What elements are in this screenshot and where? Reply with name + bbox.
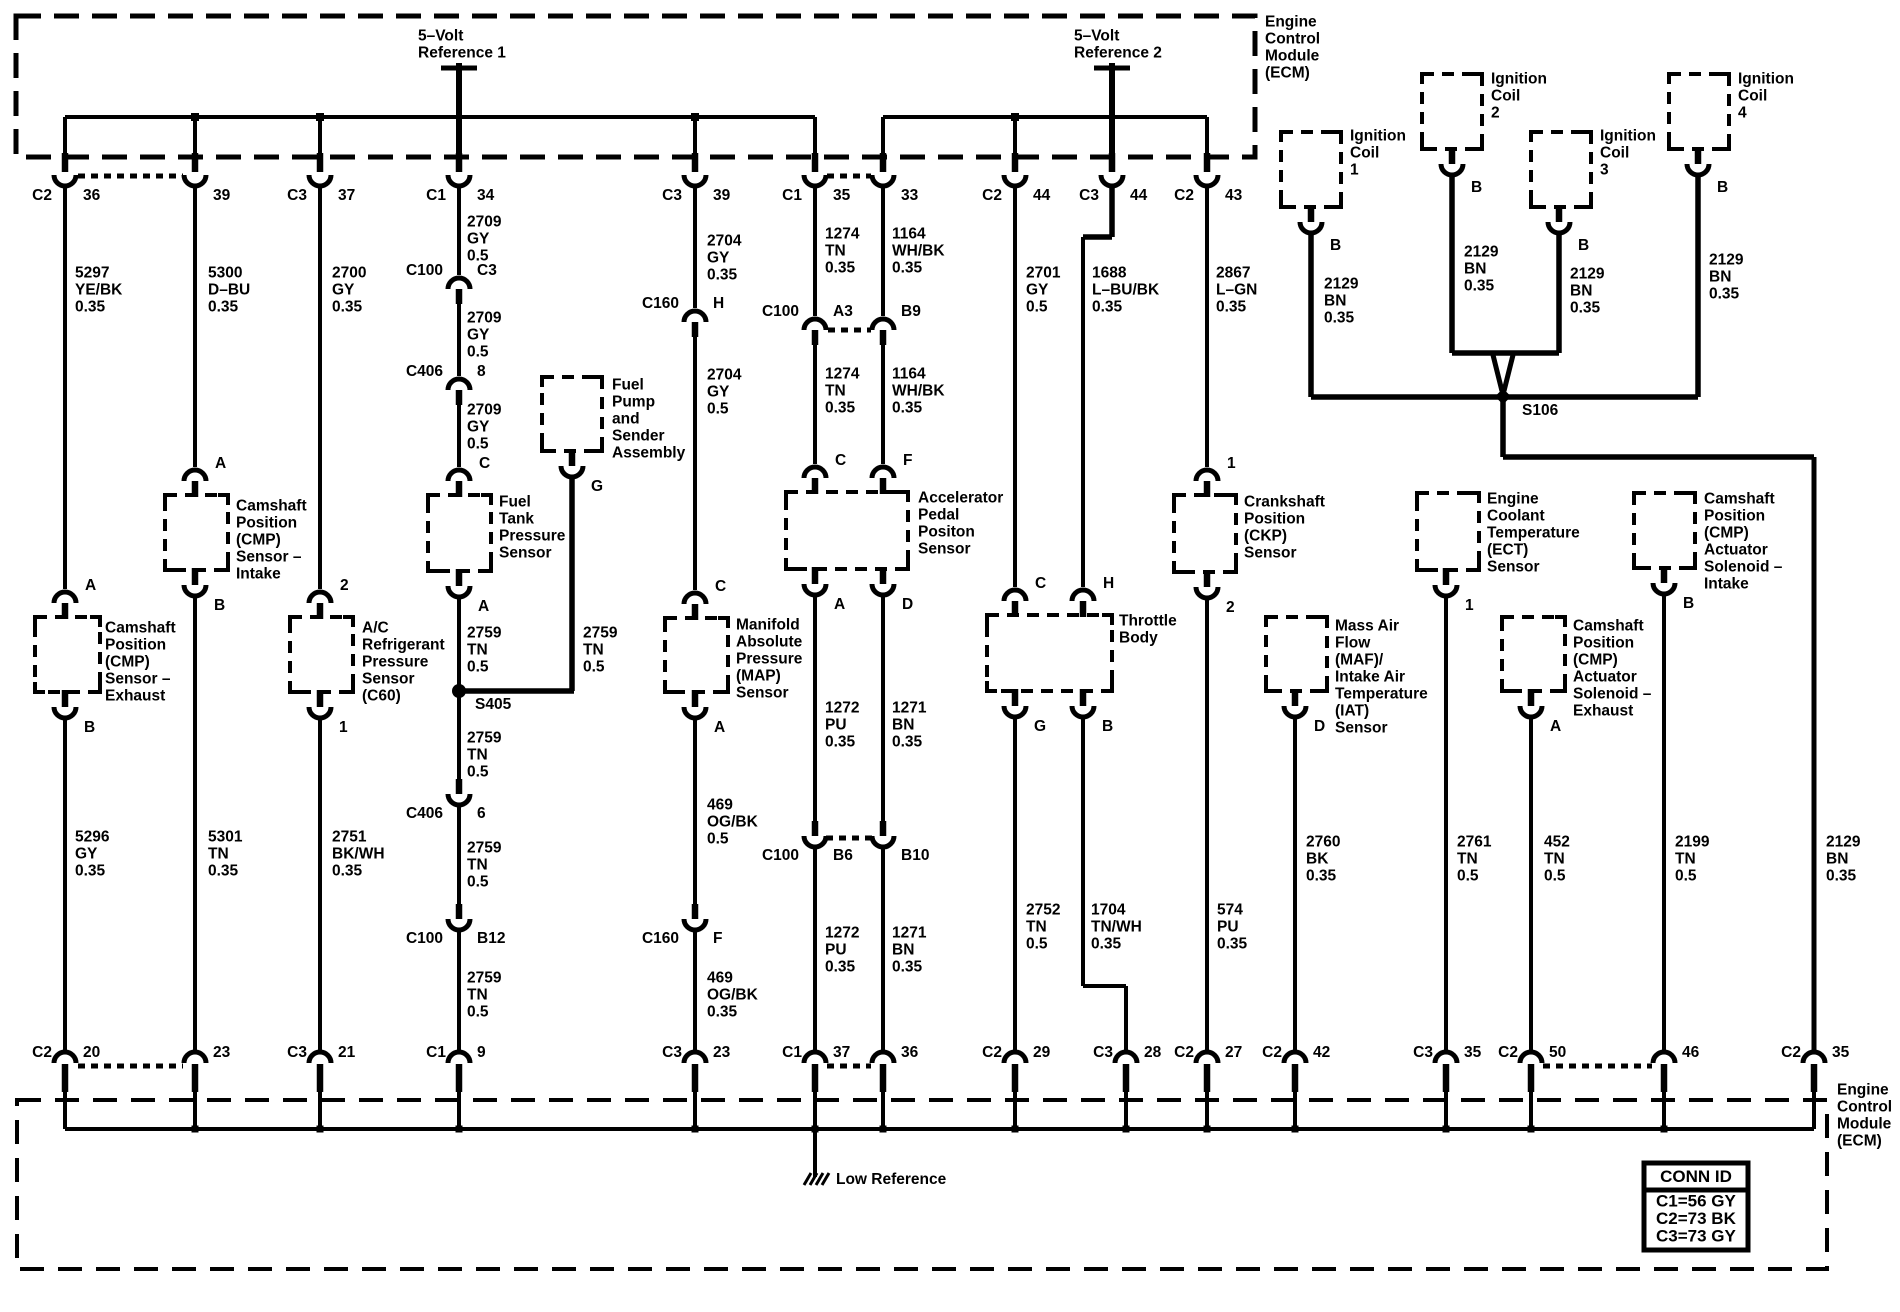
connector C APP sensor <box>804 467 826 478</box>
ECM bottom dashed box <box>17 1100 1827 1269</box>
svg-text:A: A <box>85 577 96 594</box>
Camshaft Position (CMP) Actuator Solenoid - Exhaust box <box>1502 617 1565 691</box>
svg-text:35: 35 <box>1464 1044 1482 1061</box>
connector B CMP intake <box>184 585 206 596</box>
wire 469 OG/BK seg1 <box>693 720 697 904</box>
in-line connector C100 pin C3 upper <box>448 278 470 289</box>
in-line connector C160 pin F lower <box>684 919 706 930</box>
in-line connector C100 pin B6 lower <box>804 836 826 847</box>
ECM pin stub 39 top <box>692 153 699 172</box>
connector 2 A/C sensor <box>309 592 331 603</box>
svg-text:C406: C406 <box>406 805 443 822</box>
Ignition Coil 3 box <box>1531 132 1591 207</box>
svg-text:B6: B6 <box>833 847 853 864</box>
pin 9 wire to low ref bus <box>457 1092 461 1129</box>
pin stub D APP sensor <box>880 567 887 584</box>
svg-text:42: 42 <box>1313 1044 1330 1061</box>
ECM pin stub 35 bottom <box>1811 1064 1818 1092</box>
junction bus1/pin C3-37 <box>316 113 324 121</box>
svg-text:A: A <box>834 596 845 613</box>
Manifold Absolute Pressure (MAP) Sensor box <box>665 618 728 692</box>
svg-text:C1: C1 <box>426 1044 446 1061</box>
svg-text:50: 50 <box>1549 1044 1566 1061</box>
svg-text:C2: C2 <box>32 187 52 204</box>
pin stub B ignition coil 3 <box>1556 205 1563 222</box>
svg-text:B: B <box>1578 237 1589 254</box>
pin stub B CMP actuator intake <box>1661 566 1668 583</box>
svg-text:A: A <box>1550 718 1561 735</box>
ECM pin stub 44 top <box>1109 153 1116 172</box>
svg-text:S106: S106 <box>1522 402 1559 419</box>
ECM pin connector C2 20 bottom <box>54 1052 76 1063</box>
wire 452 TN <box>1529 719 1533 1050</box>
junction low ref bus x=1207 <box>1204 1126 1211 1133</box>
Camshaft Position (CMP) Sensor - Exhaust box <box>35 617 100 692</box>
connector B throttle body <box>1072 706 1094 717</box>
Ignition Coil 1 box <box>1281 132 1341 207</box>
pin stub A APP sensor <box>812 567 819 584</box>
pin 35 wire to low ref bus <box>1812 1092 1816 1129</box>
svg-text:2: 2 <box>340 577 349 594</box>
svg-text:46: 46 <box>1682 1044 1700 1061</box>
wire 1272 PU seg2 <box>813 849 817 1050</box>
svg-text:37: 37 <box>833 1044 850 1061</box>
pin stub A MAP sensor <box>692 690 699 707</box>
ground symbol Low Reference <box>804 1173 829 1185</box>
svg-text:C3: C3 <box>287 1044 307 1061</box>
svg-text:43: 43 <box>1225 187 1243 204</box>
wire 2129 coil4 down <box>1695 177 1701 397</box>
junction low ref bus x=1295 <box>1292 1126 1299 1133</box>
splice V left leg <box>1493 355 1502 391</box>
pin stub B throttle body <box>1080 689 1087 706</box>
svg-text:Low Reference: Low Reference <box>836 1171 947 1188</box>
ECM pin stub 9 bottom <box>456 1064 463 1092</box>
svg-text:H: H <box>713 295 724 312</box>
wire 2709 GY seg1 <box>457 188 461 275</box>
ECM pin connector C2 36 top <box>54 175 76 186</box>
svg-text:C: C <box>835 452 846 469</box>
pin 27 wire to low ref bus <box>1205 1092 1209 1129</box>
svg-text:36: 36 <box>83 187 101 204</box>
svg-text:G: G <box>1034 718 1046 735</box>
pin stub B6 lower <box>812 821 819 836</box>
ECM pin stub 33 top <box>880 153 887 172</box>
wire 2704 GY seg1 <box>693 188 697 308</box>
ECM pin stub 28 bottom <box>1123 1064 1130 1092</box>
connector C throttle body <box>1004 590 1026 601</box>
wire 1704 jog <box>1083 984 1126 988</box>
svg-text:C2: C2 <box>1174 1044 1194 1061</box>
svg-text:B: B <box>1102 718 1113 735</box>
svg-text:C406: C406 <box>406 363 443 380</box>
ECM pin connector C3 35 bottom <box>1435 1052 1457 1063</box>
wire 1271 BN seg1 <box>881 597 885 821</box>
svg-text:C2: C2 <box>982 1044 1002 1061</box>
junction bus1/pin C3-39 <box>691 113 699 121</box>
ECM pin stub 23 bottom <box>692 1064 699 1092</box>
pin 35 wire to low ref bus <box>1444 1092 1448 1129</box>
svg-text:F: F <box>713 930 722 947</box>
dotted link pins 20-23 <box>78 1064 183 1069</box>
svg-text:CONN ID: CONN ID <box>1660 1167 1732 1186</box>
connector D APP sensor <box>872 584 894 595</box>
pin 50 wire to low ref bus <box>1529 1092 1533 1129</box>
pin stub 1 A/C sensor <box>317 690 324 707</box>
svg-text:1: 1 <box>339 719 348 736</box>
Ignition Coil 2 box <box>1422 74 1482 149</box>
5V ref 2 wire <box>1109 63 1115 172</box>
svg-text:C3: C3 <box>662 1044 682 1061</box>
ECM pin connector C2 29 bottom <box>1004 1052 1026 1063</box>
svg-text:C160: C160 <box>642 930 679 947</box>
svg-text:28: 28 <box>1144 1044 1162 1061</box>
svg-text:34: 34 <box>477 187 495 204</box>
svg-text:C2: C2 <box>1498 1044 1518 1061</box>
ECM pin stub 39 top <box>192 153 199 172</box>
wire 2759 TN seg4 <box>457 932 461 1050</box>
ECM pin connector C2 42 bottom <box>1284 1052 1306 1063</box>
pin stub B CMP intake <box>192 568 199 585</box>
svg-text:C3: C3 <box>1413 1044 1433 1061</box>
in-line connector C100 pin A3 upper <box>804 319 826 330</box>
svg-text:A: A <box>714 719 725 736</box>
wire 1272 PU seg1 <box>813 597 817 821</box>
connector A MAP sensor <box>684 707 706 718</box>
ECM pin stub 36 bottom <box>880 1064 887 1092</box>
pin 28 wire to low ref bus <box>1124 1092 1128 1129</box>
svg-text:C2: C2 <box>1174 187 1194 204</box>
svg-text:C160: C160 <box>642 295 679 312</box>
5V ref 1 wire <box>456 63 462 172</box>
connector G fuel pump <box>561 466 583 477</box>
dotted link pins 50-46 <box>1543 1064 1652 1069</box>
svg-text:37: 37 <box>338 187 355 204</box>
svg-text:C2: C2 <box>982 187 1002 204</box>
svg-text:C100: C100 <box>762 847 799 864</box>
ECM pin connector 33 top <box>872 175 894 186</box>
connector 1 ECT sensor <box>1435 585 1457 596</box>
connector B ignition coil 2 <box>1441 164 1463 175</box>
svg-text:20: 20 <box>83 1044 100 1061</box>
pin stub 1 ECT sensor <box>1443 568 1450 585</box>
svg-text:C3: C3 <box>287 187 307 204</box>
Mass Air Flow (MAF)/Intake Air Temperature (IAT) Sensor box <box>1266 617 1327 691</box>
connector 1 A/C sensor <box>309 707 331 718</box>
dotted link pins 35-33 <box>827 174 871 179</box>
junction low ref bus x=1015 <box>1012 1126 1019 1133</box>
CONN ID table <box>1644 1163 1748 1250</box>
connector G throttle body <box>1004 706 1026 717</box>
ECM pin stub 35 bottom <box>1443 1064 1450 1092</box>
pin stub A FTP sensor <box>456 569 463 586</box>
ECM pin stub 27 bottom <box>1204 1064 1211 1092</box>
svg-text:G: G <box>591 478 603 495</box>
wire 2752 TN <box>1013 719 1017 1050</box>
wire 1688 L-BU/BK seg1 <box>1109 188 1115 237</box>
junction low ref bus x=815 <box>812 1126 819 1133</box>
pin stub B12 lower <box>456 904 463 919</box>
ECM pin stub 42 bottom <box>1292 1064 1299 1092</box>
ECM pin connector 46 bottom <box>1653 1052 1675 1063</box>
wire 1274 TN seg2 <box>813 345 817 464</box>
Throttle Body box <box>987 615 1112 691</box>
svg-text:C100: C100 <box>406 262 443 279</box>
connector C FTP sensor <box>448 470 470 481</box>
pin stub B10 <box>880 821 887 836</box>
pin 42 wire to low ref bus <box>1293 1092 1297 1129</box>
wire 1704 TN/WH seg2 <box>1124 986 1128 1050</box>
pin 36 wire to low ref bus <box>881 1092 885 1129</box>
connector C MAP sensor <box>684 593 706 604</box>
wire 2759 TN seg2 <box>457 695 461 779</box>
svg-text:2: 2 <box>1226 599 1235 616</box>
pin 46 wire to low ref bus <box>1662 1092 1666 1129</box>
svg-text:C1: C1 <box>782 187 802 204</box>
svg-text:1: 1 <box>1465 597 1474 614</box>
junction low ref bus x=1664 <box>1661 1126 1668 1133</box>
svg-text:D: D <box>1314 718 1325 735</box>
svg-text:B: B <box>84 719 95 736</box>
ECM pin stub 50 bottom <box>1528 1064 1535 1092</box>
wire 469 OG/BK seg2 <box>693 932 697 1050</box>
connector B ignition coil 3 <box>1548 222 1570 233</box>
wire 2867 L-GN <box>1205 188 1209 467</box>
pin stub F lower <box>692 904 699 919</box>
svg-text:23: 23 <box>713 1044 731 1061</box>
connector D MAF sensor <box>1284 706 1306 717</box>
svg-text:A: A <box>215 455 226 472</box>
ECM pin connector 36 bottom <box>872 1052 894 1063</box>
wire 5297 YE/BK <box>63 188 67 589</box>
splice V right leg <box>1504 355 1513 391</box>
wire 1164 WH/BK seg2 <box>881 345 885 464</box>
in-line connector C406 pin 6 lower <box>448 794 470 805</box>
5V ref 2 T-bar <box>1094 66 1130 71</box>
Camshaft Position (CMP) Sensor - Intake box <box>165 495 228 570</box>
svg-text:8: 8 <box>477 363 486 380</box>
wire to low reference ground <box>813 1129 817 1177</box>
ECM pin connector C3 23 bottom <box>684 1052 706 1063</box>
ECM pin stub 37 bottom <box>812 1064 819 1092</box>
wire S106 down <box>1500 397 1506 457</box>
ECM pin stub 44 top <box>1012 153 1019 172</box>
pin stub G fuel pump <box>569 449 576 466</box>
5V ref 1 T-bar <box>441 66 477 71</box>
connector A CMP intake <box>184 470 206 481</box>
ECM pin stub 37 top <box>317 153 324 172</box>
pin 37 wire to low ref bus <box>813 1092 817 1129</box>
svg-text:C3: C3 <box>477 262 497 279</box>
ECM pin stub 20 bottom <box>62 1064 69 1092</box>
wire 1704 TN/WH seg1 <box>1081 719 1085 986</box>
ECM pin stub 21 bottom <box>317 1064 324 1092</box>
pin stub 6 lower <box>456 779 463 794</box>
low reference bus <box>65 1127 1814 1131</box>
svg-text:C100: C100 <box>762 303 799 320</box>
svg-text:B: B <box>1471 179 1482 196</box>
in-line connector C406 pin 8 upper <box>448 379 470 390</box>
wire 2759 TN fuel pump <box>569 479 575 691</box>
svg-text:35: 35 <box>833 187 851 204</box>
wire 2759 TN seg1 <box>457 599 461 688</box>
in-line connector C100 pin B9 <box>872 319 894 330</box>
svg-text:B: B <box>1683 595 1694 612</box>
ECM pin connector C2 43 top <box>1196 175 1218 186</box>
svg-text:C: C <box>715 578 726 595</box>
connector A FTP sensor <box>448 586 470 597</box>
junction low ref bus x=459 <box>456 1126 463 1133</box>
svg-text:C2: C2 <box>1262 1044 1282 1061</box>
wire 2129 coil3 down <box>1556 235 1562 353</box>
ECM pin connector 39 top <box>184 175 206 186</box>
wire S106 to right column <box>1503 454 1814 460</box>
splice S405 <box>452 684 466 698</box>
wire 1164 WH/BK seg1 <box>881 188 885 316</box>
svg-text:C2: C2 <box>1781 1044 1801 1061</box>
connector A CMP actuator exhaust <box>1520 706 1542 717</box>
wire 2199 TN <box>1662 596 1666 1050</box>
ECM pin connector C3 44 top <box>1101 175 1123 186</box>
svg-text:27: 27 <box>1225 1044 1242 1061</box>
5V reference 2 bus <box>883 115 1207 119</box>
ECM pin connector C1 34 top <box>448 175 470 186</box>
svg-text:36: 36 <box>901 1044 919 1061</box>
svg-text:29: 29 <box>1033 1044 1051 1061</box>
wire 2751 BK/WH <box>318 720 322 1050</box>
ECM pin connector C3 21 bottom <box>309 1052 331 1063</box>
svg-text:39: 39 <box>713 187 731 204</box>
svg-text:B12: B12 <box>477 930 505 947</box>
svg-text:C1: C1 <box>426 187 446 204</box>
svg-text:C3: C3 <box>1079 187 1099 204</box>
pin stub B ignition coil 2 <box>1449 147 1456 164</box>
in-line connector C100 pin B10 <box>872 836 894 847</box>
Accelerator Pedal Positon Sensor box <box>786 492 908 569</box>
junction low ref bus x=1446 <box>1443 1126 1450 1133</box>
connector A APP sensor <box>804 584 826 595</box>
in-line connector C100 pin B12 lower <box>448 919 470 930</box>
svg-text:C: C <box>479 455 490 472</box>
wire 2709 GY seg2 <box>457 304 461 376</box>
wire 2759 TN seg3 <box>457 807 461 904</box>
pin stub B ignition coil 1 <box>1308 205 1315 222</box>
svg-text:S405: S405 <box>475 696 512 713</box>
pin stub A CMP actuator exhaust <box>1528 689 1535 706</box>
pin stub B ignition coil 4 <box>1695 147 1702 164</box>
ECM pin connector C3 37 top <box>309 175 331 186</box>
svg-text:C1: C1 <box>782 1044 802 1061</box>
junction low ref bus x=195 <box>192 1126 199 1133</box>
wire 2761 TN <box>1444 598 1448 1050</box>
wire 2129 BN to ECM C2-35 <box>1812 457 1817 1050</box>
wire 2760 BK <box>1293 719 1297 1050</box>
wire coil2-coil3 junction bar <box>1452 350 1559 356</box>
bus drop x=320 <box>318 117 322 157</box>
wire 1688 L-BU/BK seg2 <box>1081 237 1085 587</box>
bus drop x=1015 <box>1013 117 1017 157</box>
ECM pin stub 43 top <box>1204 153 1211 172</box>
wire 2129 coil1 down <box>1308 235 1314 397</box>
wire 2709 GY seg3 <box>457 405 461 467</box>
wire 2700 GY <box>318 188 322 589</box>
wire 1688 jog <box>1083 234 1112 240</box>
pin 23 wire to low ref bus <box>693 1092 697 1129</box>
pin 29 wire to low ref bus <box>1013 1092 1017 1129</box>
Fuel Pump and Sender Assembly box <box>542 377 602 451</box>
connector 2 CKP sensor <box>1196 587 1218 598</box>
svg-text:H: H <box>1103 575 1114 592</box>
svg-text:44: 44 <box>1130 187 1148 204</box>
connector B ignition coil 4 <box>1687 164 1709 175</box>
svg-text:D: D <box>902 596 913 613</box>
ECM pin stub 23 bottom <box>192 1064 199 1092</box>
bus drop x=195 <box>193 117 197 157</box>
wire 1271 BN seg2 <box>881 849 885 1050</box>
pin 20 wire to low ref bus <box>63 1092 67 1129</box>
Fuel Tank Pressure Sensor box <box>428 495 491 571</box>
Engine Coolant Temperature (ECT) Sensor box <box>1417 493 1479 570</box>
connector F APP sensor <box>872 467 894 478</box>
ECM pin connector C1 37 bottom <box>804 1052 826 1063</box>
ECM pin connector C2 50 bottom <box>1520 1052 1542 1063</box>
wire 2701 GY <box>1013 188 1017 587</box>
pin 23 wire to low ref bus <box>193 1092 197 1129</box>
bus drop x=65 <box>63 117 67 157</box>
wire 2129 coil2 down <box>1449 177 1455 353</box>
wire 1274 TN seg1 <box>813 188 817 316</box>
ECM pin connector C3 28 bottom <box>1115 1052 1137 1063</box>
svg-text:C100: C100 <box>406 930 443 947</box>
connector A CMP exhaust <box>54 592 76 603</box>
Camshaft Position (CMP) Actuator Solenoid - Intake box <box>1634 493 1695 568</box>
svg-text:B10: B10 <box>901 847 929 864</box>
splice S106 <box>1495 389 1511 405</box>
svg-text:B: B <box>1330 237 1341 254</box>
bus drop x=1207 <box>1205 117 1209 157</box>
svg-text:C1=56 GYC2=73 BKC3=73 GY: C1=56 GYC2=73 BKC3=73 GY <box>1656 1192 1737 1246</box>
junction low ref bus x=1126 <box>1123 1126 1130 1133</box>
wire fuel pump to S405 <box>459 688 574 694</box>
svg-text:B: B <box>1717 179 1728 196</box>
ECM pin connector 23 bottom <box>184 1052 206 1063</box>
svg-text:6: 6 <box>477 805 486 822</box>
wire 574 PU <box>1205 600 1209 1050</box>
ECM pin connector C1 9 bottom <box>448 1052 470 1063</box>
connector H throttle body <box>1072 590 1094 601</box>
ECM pin stub 34 top <box>456 153 463 172</box>
pin 21 wire to low ref bus <box>318 1092 322 1129</box>
ECM pin stub 36 top <box>62 153 69 172</box>
dotted link pins B6-B10 <box>826 836 872 841</box>
junction low ref bus x=883 <box>880 1126 887 1133</box>
wire 5300 D-BU <box>193 188 197 467</box>
Ignition Coil 4 box <box>1669 74 1729 149</box>
junction low ref bus x=320 <box>317 1126 324 1133</box>
svg-text:33: 33 <box>901 187 919 204</box>
svg-text:1: 1 <box>1227 455 1236 472</box>
dotted link pins 36-39 <box>78 174 183 179</box>
5V reference 1 bus <box>65 115 815 119</box>
in-line connector C160 pin H upper <box>684 311 706 322</box>
svg-text:9: 9 <box>477 1044 486 1061</box>
connector 1 CKP sensor <box>1196 470 1218 481</box>
junction low ref bus x=1531 <box>1528 1126 1535 1133</box>
junction bus1/pin39 <box>191 113 199 121</box>
svg-text:A3: A3 <box>833 303 853 320</box>
bus drop x=883 <box>881 117 885 157</box>
wire 5296 GY <box>63 720 67 1050</box>
